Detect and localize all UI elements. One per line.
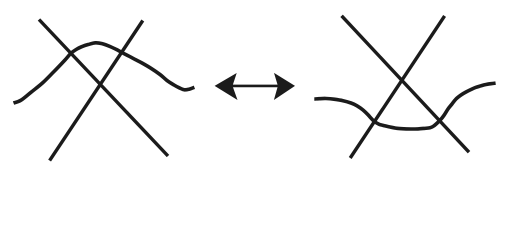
left diagram: straight strand NW-SE: [39, 20, 168, 157]
right diagram: straight strand SW-NE: [350, 16, 444, 158]
right diagram: straight strand NW-SE: [342, 16, 469, 152]
left diagram: wavy overstrand passing above the crossing: [14, 43, 195, 103]
left diagram: straight strand SW-NE: [50, 21, 143, 161]
right diagram: wavy understrand passing below the crossing: [314, 83, 495, 129]
double-headed arrow: shaft: [231, 85, 279, 88]
double-headed arrow: right arrowhead: [274, 73, 295, 100]
double-headed arrow: left arrowhead: [215, 73, 238, 100]
